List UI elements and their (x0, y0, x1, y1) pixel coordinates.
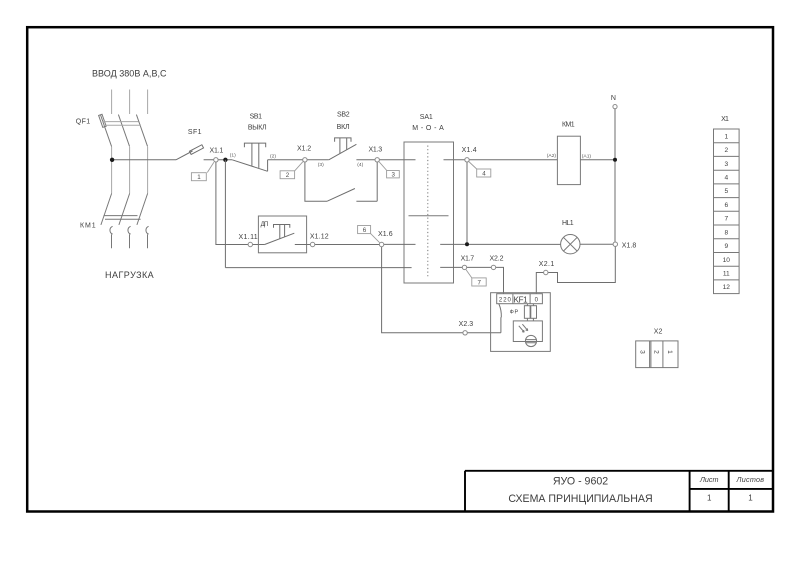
svg-text:3: 3 (638, 350, 645, 354)
svg-text:X2.1: X2.1 (539, 261, 555, 268)
svg-text:1: 1 (707, 494, 712, 503)
svg-text:ДП: ДП (261, 221, 269, 228)
svg-text:N: N (611, 95, 616, 102)
svg-text:(1): (1) (230, 153, 236, 159)
svg-text:X1.7: X1.7 (461, 256, 475, 263)
svg-text:SA1: SA1 (420, 114, 433, 121)
svg-text:ВЫКЛ: ВЫКЛ (248, 125, 267, 132)
svg-text:НАГРУЗКА: НАГРУЗКА (105, 270, 154, 280)
svg-text:11: 11 (723, 271, 730, 278)
svg-text:3: 3 (724, 161, 728, 168)
svg-text:7: 7 (478, 280, 482, 287)
svg-text:QF1: QF1 (76, 119, 90, 126)
svg-text:1: 1 (666, 350, 673, 354)
svg-text:SF1: SF1 (188, 129, 202, 136)
svg-text:2: 2 (653, 350, 660, 354)
svg-text:6: 6 (724, 202, 728, 209)
svg-text:KF1: KF1 (514, 296, 529, 305)
svg-text:2: 2 (286, 172, 290, 179)
svg-text:(4): (4) (357, 162, 363, 168)
svg-text:(2): (2) (270, 154, 276, 160)
svg-text:(А2): (А2) (547, 153, 557, 159)
svg-text:3: 3 (392, 172, 396, 179)
svg-text:КМ1: КМ1 (562, 122, 575, 129)
svg-text:СХЕМА ПРИНЦИПИАЛЬНАЯ: СХЕМА ПРИНЦИПИАЛЬНАЯ (508, 493, 652, 505)
svg-text:HL1: HL1 (562, 220, 574, 227)
svg-text:7: 7 (724, 216, 728, 223)
svg-text:X2.3: X2.3 (459, 321, 474, 328)
svg-text:X1.6: X1.6 (378, 231, 393, 238)
svg-text:X2: X2 (654, 328, 663, 335)
svg-text:(А1): (А1) (582, 153, 592, 159)
svg-text:Листов: Листов (736, 475, 765, 484)
svg-text:SB1: SB1 (250, 114, 262, 121)
svg-text:4: 4 (724, 175, 728, 182)
svg-text:8: 8 (724, 229, 728, 236)
svg-text:X1.1: X1.1 (210, 147, 224, 154)
svg-text:X1: X1 (721, 116, 729, 123)
svg-text:ФР: ФР (510, 309, 519, 315)
svg-text:ЯУО - 9602: ЯУО - 9602 (553, 475, 608, 487)
svg-text:1: 1 (197, 174, 201, 181)
svg-text:ВКЛ: ВКЛ (337, 124, 350, 131)
svg-text:12: 12 (723, 284, 731, 291)
svg-text:X1.11: X1.11 (239, 234, 258, 241)
svg-text:SB2: SB2 (337, 111, 350, 118)
svg-text:X1.12: X1.12 (310, 234, 329, 241)
svg-text:2: 2 (724, 147, 728, 154)
svg-text:Лист: Лист (699, 475, 719, 484)
svg-text:9: 9 (724, 243, 728, 250)
svg-text:X1.8: X1.8 (622, 243, 637, 250)
svg-text:220: 220 (499, 298, 512, 304)
svg-text:10: 10 (723, 257, 731, 264)
svg-text:1: 1 (748, 494, 753, 503)
svg-text:ВВОД 380В А,В,С: ВВОД 380В А,В,С (92, 68, 167, 78)
svg-text:X1.2: X1.2 (297, 146, 311, 153)
svg-text:X1.3: X1.3 (369, 146, 383, 153)
svg-text:6: 6 (363, 227, 367, 234)
svg-text:4: 4 (482, 171, 486, 178)
svg-text:М - О - А: М - О - А (412, 125, 444, 132)
svg-text:1: 1 (724, 133, 728, 140)
svg-text:КМ1: КМ1 (80, 222, 96, 229)
svg-text:X2.2: X2.2 (490, 256, 504, 263)
svg-text:5: 5 (724, 188, 728, 195)
svg-text:(3): (3) (318, 162, 324, 168)
svg-text:X1.4: X1.4 (462, 147, 477, 154)
